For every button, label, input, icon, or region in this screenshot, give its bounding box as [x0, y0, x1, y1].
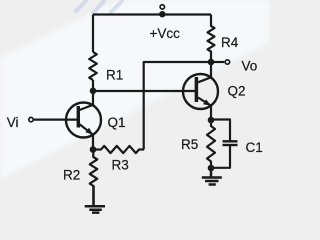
wire feedback R3 up to Vo node — [144, 62, 211, 150]
transistor Q2 circle — [183, 74, 218, 109]
resistor R3 — [93, 146, 144, 153]
capacitor C1 top plate — [223, 140, 238, 142]
wire Q1 emitter down to node B — [92, 135, 94, 150]
transistor Q1 emitter diagonal — [80, 124, 94, 134]
resistor R1 — [89, 52, 97, 80]
wire Q2 emitter down to node C — [210, 106, 212, 120]
ground below R2 — [85, 186, 105, 213]
transistor Q1 emitter arrowhead — [85, 128, 93, 135]
node D junction dot (R5 bottom, C1 bottom, ground) — [208, 165, 215, 172]
svg-text:R3: R3 — [112, 157, 129, 172]
wire Vi input to Q1 base — [34, 118, 79, 120]
transistor Q2 base bar — [195, 77, 199, 102]
wire node A to Q2 base — [93, 90, 196, 92]
capacitor C1 bottom plate — [223, 144, 238, 146]
wire node C to capacitor C1 branch — [211, 120, 230, 141]
transistor Q2 emitter diagonal — [198, 98, 211, 106]
resistor R2 — [90, 150, 98, 207]
resistor R5 — [207, 120, 215, 168]
svg-text:+Vcc: +Vcc — [150, 26, 181, 41]
svg-text:Q1: Q1 — [108, 115, 126, 130]
node Vo junction dot (R4, Q2 collector, feedback) — [208, 59, 215, 66]
svg-text:R1: R1 — [106, 67, 123, 82]
wire left drop from rail to R1 — [92, 15, 94, 53]
wire C1 bottom plate down to node D — [211, 145, 230, 168]
wire Vcc top rail — [93, 13, 211, 15]
svg-text:R4: R4 — [221, 35, 239, 50]
svg-text:C1: C1 — [246, 140, 263, 155]
svg-text:Q2: Q2 — [228, 84, 246, 99]
ground below R5 and C1 — [202, 168, 222, 185]
svg-text:Vo: Vo — [242, 59, 258, 74]
transistor Q2 emitter arrowhead — [203, 99, 211, 105]
terminal Vo open circle — [225, 60, 229, 64]
svg-text:R5: R5 — [181, 137, 198, 152]
node Vcc junction dot on top rail — [159, 11, 165, 17]
wire Vo node to output terminal — [211, 61, 224, 63]
node B junction dot (Q1 emitter, R2, R3) — [90, 146, 97, 153]
transistor Q1 base bar — [77, 106, 80, 128]
node A junction dot (R1 bottom, Q1 collector, Q2 base) — [90, 88, 97, 95]
transistor Q2 collector diagonal — [198, 62, 211, 82]
svg-text:Vi: Vi — [7, 115, 19, 130]
transistor Q1 collector diagonal — [80, 105, 94, 110]
terminal +Vcc open circle — [160, 5, 164, 9]
watermark strokes (decorative) — [76, 1, 122, 13]
resistor R4 — [208, 15, 215, 63]
wire R1 bottom to node A and Q1 collector — [92, 80, 94, 106]
terminal Vi open circle — [29, 117, 33, 121]
transistor Q1 circle — [66, 103, 101, 138]
svg-text:R2: R2 — [63, 167, 80, 182]
node C junction dot (Q2 emitter, R5, C1) — [208, 117, 215, 124]
